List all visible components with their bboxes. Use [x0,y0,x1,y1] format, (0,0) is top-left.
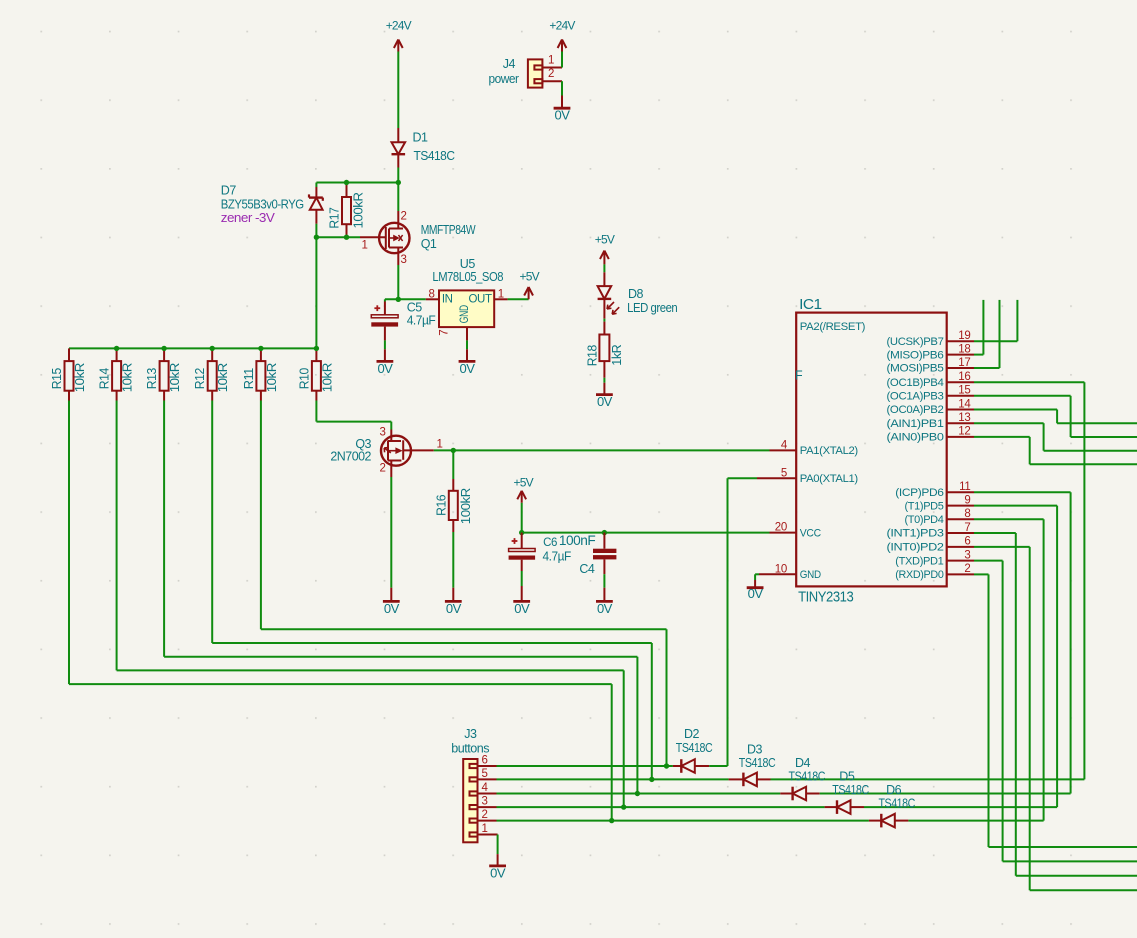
svg-text:0V: 0V [460,361,476,376]
svg-text:Q1: Q1 [421,237,437,251]
svg-text:10kR: 10kR [72,363,87,392]
svg-text:0V: 0V [384,601,400,616]
svg-text:+24V: +24V [549,19,575,33]
svg-text:(T0)PD4: (T0)PD4 [905,514,944,526]
svg-text:C6: C6 [543,537,557,549]
svg-text:2: 2 [964,563,970,575]
svg-text:GND: GND [800,569,821,581]
svg-text:C4: C4 [579,562,595,576]
svg-text:0V: 0V [597,394,613,409]
svg-text:R16: R16 [433,495,448,516]
svg-text:2N7002: 2N7002 [330,449,371,463]
svg-text:(MOSI)PB5: (MOSI)PB5 [887,363,944,375]
svg-text:GND: GND [459,305,471,323]
svg-text:1: 1 [481,823,487,835]
svg-text:17: 17 [958,357,970,369]
svg-text:8: 8 [429,289,435,301]
svg-text:7: 7 [438,330,450,336]
svg-text:IN: IN [442,293,453,305]
svg-text:D6: D6 [886,783,902,797]
svg-text:2: 2 [548,68,554,80]
svg-text:IC1: IC1 [799,297,822,313]
svg-text:LM78L05_SO8: LM78L05_SO8 [432,270,503,284]
svg-text:D8: D8 [628,287,644,301]
svg-text:7: 7 [964,522,970,534]
svg-text:PA1(XTAL2): PA1(XTAL2) [800,445,858,457]
svg-text:(OC1A)PB3: (OC1A)PB3 [887,391,944,403]
svg-text:100kR: 100kR [458,488,473,524]
svg-text:8: 8 [964,508,970,520]
svg-text:TS418C: TS418C [414,149,455,163]
svg-text:R11: R11 [241,368,256,389]
svg-text:20: 20 [775,522,787,534]
svg-text:1: 1 [436,439,442,451]
svg-text:10kR: 10kR [215,363,230,392]
svg-text:(MISO)PB6: (MISO)PB6 [887,349,944,361]
svg-text:+5V: +5V [595,233,615,247]
svg-text:5: 5 [481,768,487,780]
svg-text:0V: 0V [490,865,506,880]
svg-text:TS418C: TS418C [878,797,915,811]
svg-text:0V: 0V [597,601,613,616]
svg-text:R15: R15 [49,368,64,389]
svg-text:J3: J3 [464,727,477,741]
svg-text:(AIN1)PB1: (AIN1)PB1 [887,418,944,430]
svg-text:TINY2313: TINY2313 [798,590,854,606]
svg-text:(ICP)PD6: (ICP)PD6 [895,487,943,499]
svg-text:14: 14 [958,398,971,410]
svg-text:2: 2 [379,463,385,475]
svg-text:1: 1 [548,55,554,67]
svg-text:3: 3 [481,796,487,808]
svg-text:+5V: +5V [514,475,534,489]
svg-text:D4: D4 [795,756,811,770]
svg-text:R10: R10 [296,368,311,389]
svg-text:(OC0A)PB2: (OC0A)PB2 [887,404,944,416]
svg-text:power: power [489,72,519,86]
svg-text:+24V: +24V [386,19,412,33]
svg-text:2: 2 [481,809,487,821]
svg-text:0V: 0V [748,586,764,601]
svg-text:(UCSK)PB7: (UCSK)PB7 [887,336,944,348]
svg-text:(INT1)PD3: (INT1)PD3 [887,528,944,540]
svg-text:TS418C: TS418C [739,756,776,770]
svg-text:0V: 0V [555,108,571,123]
svg-text:VCC: VCC [800,527,821,539]
svg-text:D5: D5 [839,770,855,784]
svg-text:0V: 0V [446,601,462,616]
svg-text:19: 19 [958,330,970,342]
svg-text:(INT0)PD2: (INT0)PD2 [887,542,944,554]
svg-text:100kR: 100kR [351,192,366,228]
svg-text:6: 6 [964,536,970,548]
svg-text:4: 4 [781,439,788,451]
svg-text:10kR: 10kR [264,363,279,392]
svg-text:TS418C: TS418C [832,783,869,797]
svg-text:2: 2 [400,211,406,223]
svg-text:buttons: buttons [451,742,489,756]
svg-text:5: 5 [781,467,787,479]
svg-text:18: 18 [958,343,970,355]
svg-text:16: 16 [958,371,970,383]
svg-text:TS418C: TS418C [676,741,713,755]
svg-text:F: F [795,369,803,383]
svg-text:LED green: LED green [627,301,678,315]
svg-text:100nF: 100nF [559,532,595,548]
svg-text:+5V: +5V [520,269,540,283]
svg-text:OUT: OUT [469,293,492,305]
svg-text:(RXD)PD0: (RXD)PD0 [895,569,943,581]
svg-text:10kR: 10kR [319,363,334,392]
svg-text:9: 9 [964,494,970,506]
svg-text:12: 12 [958,426,970,438]
svg-text:11: 11 [959,481,970,493]
svg-text:3: 3 [964,549,970,561]
svg-text:4.7µF: 4.7µF [407,313,436,327]
svg-text:(T1)PD5: (T1)PD5 [905,500,944,512]
svg-text:10kR: 10kR [120,363,135,392]
svg-text:D2: D2 [684,727,700,741]
svg-text:D1: D1 [413,131,429,145]
svg-text:10: 10 [775,563,787,575]
svg-text:D7: D7 [221,184,237,198]
svg-text:MMFTP84W: MMFTP84W [421,223,476,237]
svg-text:4: 4 [481,782,488,794]
svg-text:(AIN0)PB0: (AIN0)PB0 [887,432,944,444]
svg-text:R12: R12 [192,368,207,389]
svg-text:zener -3V: zener -3V [221,211,276,225]
svg-text:PA0(XTAL1): PA0(XTAL1) [800,473,858,485]
svg-text:13: 13 [958,412,970,424]
svg-text:(OC1B)PB4: (OC1B)PB4 [887,377,944,389]
svg-text:(TXD)PD1: (TXD)PD1 [895,555,943,567]
svg-text:6: 6 [481,755,487,767]
svg-text:15: 15 [958,385,970,397]
svg-text:0V: 0V [514,601,530,616]
svg-text:3: 3 [400,254,406,266]
svg-text:D3: D3 [747,743,763,757]
svg-text:R13: R13 [144,368,159,389]
svg-text:PA2(/RESET): PA2(/RESET) [800,321,865,333]
svg-text:J4: J4 [503,57,516,71]
svg-text:10kR: 10kR [167,363,182,392]
svg-text:0V: 0V [377,361,393,376]
svg-text:3: 3 [379,426,385,438]
svg-text:R18: R18 [584,345,599,366]
svg-text:R17: R17 [327,207,342,228]
svg-text:1kR: 1kR [609,345,624,366]
svg-text:R14: R14 [97,368,112,389]
svg-text:4.7µF: 4.7µF [543,550,572,564]
svg-text:1: 1 [361,240,367,252]
svg-text:TS418C: TS418C [789,770,826,784]
svg-text:BZY55B3v0-RYG: BZY55B3v0-RYG [221,198,304,212]
